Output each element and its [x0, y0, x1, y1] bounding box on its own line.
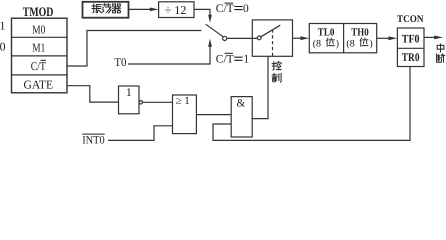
svg-text:GATE: GATE [24, 78, 54, 92]
svg-text:(8: (8 [346, 38, 354, 49]
svg-text:TMOD: TMOD [23, 4, 54, 19]
svg-text:M0: M0 [32, 23, 45, 37]
svg-text:C/T: C/T [216, 54, 234, 66]
svg-text:C/T: C/T [216, 3, 234, 15]
svg-text:TCON: TCON [397, 14, 424, 25]
svg-text:TF0: TF0 [402, 32, 420, 45]
svg-text:T0: T0 [114, 56, 126, 69]
svg-text:&: & [236, 98, 245, 110]
svg-text:0: 0 [243, 3, 249, 15]
svg-text:TR0: TR0 [402, 51, 420, 64]
svg-text:M1: M1 [32, 41, 45, 55]
svg-text:1: 1 [126, 85, 132, 99]
svg-text:(8: (8 [313, 38, 321, 49]
svg-text:C/T: C/T [31, 59, 47, 73]
svg-text:TH0: TH0 [351, 27, 368, 39]
svg-text:INT0: INT0 [82, 135, 105, 147]
svg-text:1: 1 [243, 54, 249, 66]
svg-text:): ) [369, 38, 372, 49]
svg-text:0: 0 [0, 39, 6, 53]
svg-text:TL0: TL0 [318, 27, 335, 39]
svg-text:÷ 12: ÷ 12 [165, 3, 187, 17]
svg-text:): ) [336, 38, 339, 49]
svg-text:1: 1 [0, 18, 6, 32]
